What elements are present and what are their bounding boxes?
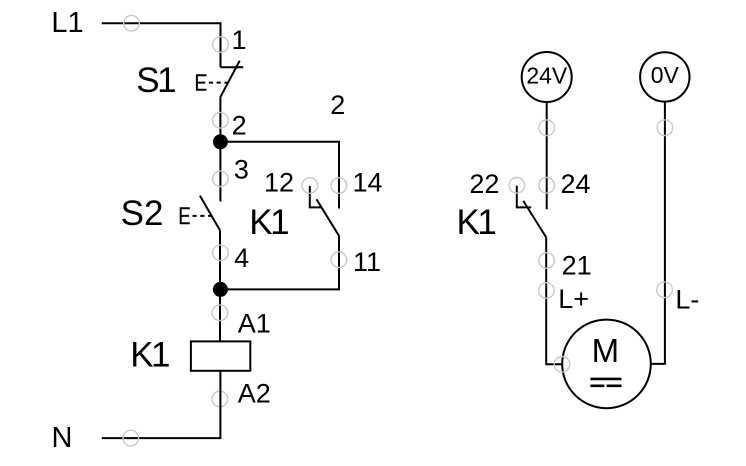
terminal circle below 0V [657, 120, 673, 136]
terminal circle pin 24 [539, 178, 555, 194]
supply 0V [640, 52, 689, 101]
contact K1 aux blade [317, 199, 340, 236]
S1 actuator E bracket [197, 75, 207, 90]
terminal circle L- [657, 282, 673, 298]
svg-text:21: 21 [562, 250, 592, 280]
svg-text:22: 22 [469, 169, 499, 199]
svg-text:L+: L+ [558, 284, 589, 314]
S2 actuator dashed link [185, 215, 212, 217]
coil K1 rectangle [191, 341, 250, 370]
terminal circle motor left [554, 357, 570, 373]
terminal circle A1 [212, 305, 228, 321]
svg-text:S1: S1 [136, 61, 175, 100]
terminal circle pin 14 [331, 178, 347, 194]
svg-text:0V: 0V [651, 62, 680, 88]
wire L1 horizontal and down to S1 [102, 23, 221, 67]
svg-text:L1: L1 [51, 7, 83, 39]
svg-text:3: 3 [234, 155, 249, 185]
contact K1 aux: NC throw 12 hook [310, 186, 322, 207]
svg-text:24: 24 [561, 169, 591, 199]
svg-text:A2: A2 [238, 378, 271, 408]
svg-text:11: 11 [353, 247, 381, 277]
motor M1 circle [562, 320, 651, 409]
junction node 4 [213, 282, 228, 297]
svg-text:1: 1 [232, 25, 247, 55]
terminal circle pin 3 [213, 171, 229, 187]
wire coil to N rail [102, 371, 221, 438]
S2 actuator E bracket [181, 208, 190, 223]
svg-text:2: 2 [232, 110, 247, 140]
svg-text:K1: K1 [457, 203, 496, 242]
svg-text:M: M [592, 332, 620, 369]
terminal circle pin 4 [213, 245, 229, 261]
wire node 2 branch to contact 14 [220, 142, 339, 209]
svg-text:N: N [52, 422, 73, 454]
junction node 2 [213, 134, 228, 149]
switch S1 blade [220, 61, 240, 98]
motor DC symbol solid bar [590, 378, 621, 381]
supply 24V [522, 52, 572, 102]
wire contact 21 down to motor [546, 237, 562, 364]
svg-text:L-: L- [675, 284, 699, 314]
svg-text:12: 12 [264, 168, 294, 198]
wire S1 to S2 through node 2 [219, 97, 221, 201]
wire contact 11 back to node 4 [220, 236, 339, 290]
svg-text:2: 2 [330, 90, 345, 120]
contact K1 right blade [523, 201, 546, 238]
terminal circle pin 22 [509, 178, 525, 194]
svg-text:K1: K1 [249, 203, 288, 242]
wire 0V down to motor [651, 102, 665, 364]
terminal circle A2 [212, 391, 228, 407]
contact K1 right: NC throw 22 hook [517, 186, 531, 208]
terminal circle on N wire [123, 430, 139, 446]
wire S2 to coil through node 4 [219, 230, 221, 341]
terminal circle below 24V [539, 120, 555, 136]
svg-text:24V: 24V [526, 63, 568, 89]
terminal circle pin 21 [539, 253, 555, 269]
svg-text:S2: S2 [121, 194, 164, 233]
svg-text:14: 14 [353, 168, 383, 198]
svg-text:4: 4 [234, 243, 249, 273]
terminal circle pin 12 [302, 178, 318, 194]
switch S2 (NO pushbutton) blade [200, 196, 220, 231]
terminal circle L+ [539, 283, 555, 299]
motor DC symbol dashed bar [590, 384, 621, 387]
switch S1 (NC pushbutton) seat [221, 66, 244, 68]
terminal circle pin 1 [213, 37, 229, 53]
wire 24V down to contact 24 [546, 102, 548, 209]
S1 actuator dashed link [201, 82, 228, 84]
terminal circle pin 11 [331, 252, 347, 268]
svg-text:K1: K1 [130, 336, 169, 375]
terminal circle pin 2 [213, 112, 229, 128]
svg-text:A1: A1 [238, 308, 271, 338]
terminal circle on L1 wire [124, 15, 140, 31]
